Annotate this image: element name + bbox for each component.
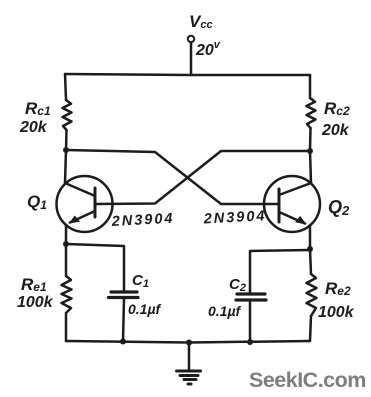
wire cross-couple upper-left to Q2 base <box>66 150 279 204</box>
capacitor C2 bottom plate <box>236 298 266 301</box>
svg-text:C2: C2 <box>229 276 246 294</box>
wire right vertical top <box>309 75 312 98</box>
svg-text:Rc2: Rc2 <box>324 99 350 118</box>
transistor Q2 circle <box>264 176 320 232</box>
wire cross-couple upper-right to Q1 base <box>95 151 310 204</box>
svg-text:Re1: Re1 <box>21 275 47 294</box>
node C2 bottom <box>247 339 253 345</box>
wire bottom rail <box>66 341 310 343</box>
svg-text:20v: 20v <box>195 39 221 59</box>
resistor RE2 <box>307 274 317 316</box>
svg-text:C1: C1 <box>132 272 149 290</box>
node collector Q1 <box>63 147 69 153</box>
node emitter Q1 <box>63 241 69 247</box>
svg-text:100k: 100k <box>318 304 355 321</box>
svg-text:SeekIC.com: SeekIC.com <box>249 368 366 392</box>
Vcc terminal circle <box>188 36 194 42</box>
wire RE1 branch <box>65 244 68 276</box>
wire node to Q1 collector <box>65 150 66 183</box>
wire Q2 emitter down <box>309 225 312 249</box>
svg-text:Vcc: Vcc <box>189 12 213 31</box>
transistor Q2 base bar <box>278 189 281 222</box>
ground symbol <box>177 371 201 384</box>
svg-text:Q2: Q2 <box>328 197 350 218</box>
svg-text:0.1µf: 0.1µf <box>128 301 162 317</box>
svg-text:100k: 100k <box>17 294 54 311</box>
wire RC1 to node <box>65 130 68 150</box>
resistor RC2 <box>307 98 316 128</box>
wire Vcc lead <box>190 43 193 76</box>
node emitter Q2 <box>307 246 313 252</box>
wire RC2 to node <box>309 128 312 151</box>
node C1 bottom <box>120 339 126 345</box>
wire emitter node to C1 branch <box>66 244 124 291</box>
resistor RC1 <box>63 100 72 130</box>
wire RE2 branch <box>310 249 311 274</box>
svg-text:0.1µf: 0.1µf <box>208 303 242 319</box>
capacitor C2 top plate <box>237 292 265 295</box>
wire C1 to bottom rail <box>123 299 124 341</box>
node collector Q2 <box>307 148 313 154</box>
transistor Q1 collector stroke <box>65 183 95 196</box>
transistor Q1 circle <box>57 176 113 232</box>
svg-text:Rc1: Rc1 <box>25 99 51 118</box>
wire top rail <box>65 74 310 75</box>
transistor Q1 emitter stroke <box>70 211 95 223</box>
svg-text:2N3904: 2N3904 <box>202 208 267 227</box>
transistor Q2 emitter arrowhead <box>295 216 307 225</box>
transistor Q2 emitter stroke <box>279 212 305 224</box>
wire C2 to bottom rail <box>249 302 252 343</box>
svg-text:2N3904: 2N3904 <box>110 211 175 230</box>
svg-text:20k: 20k <box>321 122 350 139</box>
transistor Q1 base bar <box>94 188 97 217</box>
wire ground stem <box>188 343 191 371</box>
svg-text:Q1: Q1 <box>27 192 47 212</box>
capacitor C1 top plate <box>111 290 137 293</box>
capacitor C1 bottom plate <box>109 296 139 299</box>
transistor Q1 emitter arrowhead <box>69 216 81 224</box>
wire emitter node to C2 branch <box>250 250 310 293</box>
wire node to Q2 collector <box>310 151 311 183</box>
wire RE2 to bottom rail <box>310 316 311 341</box>
resistor RE1 <box>62 276 72 313</box>
wire Q1 emitter down <box>65 225 68 244</box>
wire RE1 to bottom rail <box>65 313 68 341</box>
svg-text:20k: 20k <box>19 119 48 136</box>
wire left vertical top <box>65 74 66 100</box>
node ground junction <box>186 340 192 346</box>
svg-text:Re2: Re2 <box>325 279 351 298</box>
transistor Q2 collector stroke <box>279 183 311 195</box>
